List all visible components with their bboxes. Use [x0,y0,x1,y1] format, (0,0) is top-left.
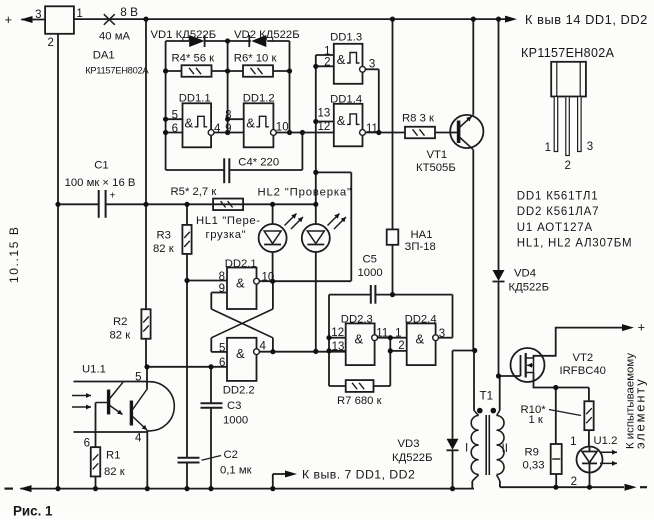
svg-text:2: 2 [565,160,571,172]
svg-text:&: & [185,116,194,131]
svg-text:1000: 1000 [223,414,248,426]
svg-text:U1.1: U1.1 [82,363,106,375]
svg-text:R8 3 к: R8 3 к [402,112,434,124]
svg-text:ЗП-18: ЗП-18 [405,241,436,253]
svg-text:C1: C1 [94,160,108,172]
svg-text:U1.2: U1.2 [594,435,618,447]
svg-text:2: 2 [48,37,54,49]
svg-text:DD1.3: DD1.3 [330,32,362,44]
svg-text:82 к: 82 к [104,466,125,478]
svg-text:HA1: HA1 [411,229,433,241]
svg-text:0,33: 0,33 [523,459,545,471]
svg-text:C4* 220: C4* 220 [238,156,279,168]
svg-text:4: 4 [135,432,142,444]
svg-text:13: 13 [318,108,331,120]
svg-text:R9: R9 [525,446,539,458]
svg-text:40 мА: 40 мА [99,30,130,42]
svg-text:Т1: Т1 [480,389,494,402]
svg-text:КД522Б: КД522Б [392,452,433,464]
svg-text:R6* 10 к: R6* 10 к [234,52,277,64]
svg-text:82 к: 82 к [110,330,131,342]
svg-text:DD2.2: DD2.2 [223,384,255,396]
svg-text:R5* 2,7 к: R5* 2,7 к [171,186,217,198]
svg-text:элементу: элементу [633,377,648,449]
svg-text:грузка": грузка" [206,229,247,241]
svg-text:5: 5 [135,371,141,383]
svg-text:R3: R3 [157,229,171,241]
svg-text:&: & [236,346,245,361]
svg-text:&: & [236,276,245,291]
svg-text:C5: C5 [363,253,377,265]
svg-text:1000: 1000 [358,267,383,279]
svg-text:8 В: 8 В [120,5,138,19]
svg-text:II: II [502,442,508,455]
svg-text:R7 680 к: R7 680 к [337,395,382,407]
svg-text:1: 1 [545,142,551,154]
svg-text:1: 1 [570,436,576,448]
svg-text:+: + [638,320,646,335]
svg-text:HL1, HL2 АЛ307БМ: HL1, HL2 АЛ307БМ [517,238,633,250]
svg-text:R2: R2 [113,316,127,328]
svg-text:IRFBC40: IRFBC40 [560,365,606,377]
svg-text:R1: R1 [106,450,120,462]
svg-text:К выв 14 DD1, DD2: К выв 14 DD1, DD2 [525,12,648,27]
svg-text:VT2: VT2 [573,352,594,364]
svg-text:+: + [5,12,13,27]
svg-text:DD2 К561ЛА7: DD2 К561ЛА7 [517,206,600,218]
svg-text:&: & [246,116,255,131]
svg-text:К выв. 7 DD1, DD2: К выв. 7 DD1, DD2 [302,468,415,482]
svg-text:КР1157ЕН802А: КР1157ЕН802А [85,65,149,76]
svg-text:0,1 мк: 0,1 мк [220,464,252,476]
svg-text:C2: C2 [224,449,238,461]
svg-text:&: & [337,113,346,128]
svg-text:VD2 КД522Б: VD2 КД522Б [234,29,300,41]
svg-text:&: & [416,332,425,347]
svg-text:DD1 К561ТЛ1: DD1 К561ТЛ1 [517,191,599,203]
svg-text:2: 2 [571,476,577,488]
svg-text:I: I [465,441,468,454]
svg-text:КД522Б: КД522Б [509,282,550,294]
svg-text:C3: C3 [227,400,241,412]
svg-text:DA1: DA1 [93,50,115,62]
svg-text:100 мк × 16 В: 100 мк × 16 В [65,177,136,189]
svg-text:6: 6 [84,437,90,449]
svg-text:R4* 56 к: R4* 56 к [172,52,215,64]
svg-text:3: 3 [35,9,41,21]
svg-text:КР1157ЕН802А: КР1157ЕН802А [521,46,615,60]
svg-text:VT1: VT1 [427,149,448,161]
svg-text:КТ505Б: КТ505Б [416,162,456,174]
svg-text:&: & [337,52,346,67]
svg-text:3: 3 [587,141,593,153]
svg-text:+: + [110,190,116,201]
svg-text:12: 12 [318,121,331,133]
svg-text:10..15 В: 10..15 В [7,225,21,283]
svg-text:VD4: VD4 [514,268,536,280]
svg-text:Рис. 1: Рис. 1 [13,504,53,519]
svg-text:VD3: VD3 [398,438,420,450]
svg-text:VD1 КД522Б: VD1 КД522Б [151,29,217,41]
svg-text:HL1 "Пере-: HL1 "Пере- [196,215,261,227]
svg-text:1 к: 1 к [529,414,543,426]
svg-text:82 к: 82 к [153,243,174,255]
svg-text:HL2 "Проверка": HL2 "Проверка" [258,187,352,199]
svg-text:&: & [355,332,364,347]
svg-text:U1 АОТ127А: U1 АОТ127А [517,222,593,234]
